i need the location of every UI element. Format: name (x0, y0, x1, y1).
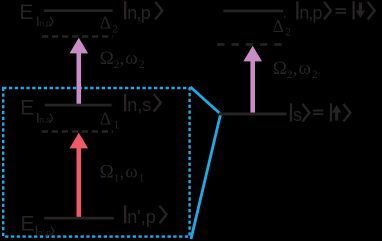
svg-text:1: 1 (139, 173, 145, 185)
svg-text:n,s: n,s (39, 115, 50, 125)
svg-text:ω: ω (125, 48, 138, 69)
svg-text:Ω: Ω (273, 58, 287, 79)
label Omega2,omega2 (left) (100, 48, 145, 71)
blue wedge line lower (box corner to |s> level) (191, 115, 221, 240)
drive arrow Omega2 (purple, right) (243, 46, 262, 115)
detuning dashed line Delta2' (right) (217, 43, 283, 46)
svg-text:,: , (120, 162, 125, 183)
label |s> = |up-arrow> (right) (290, 104, 351, 126)
svg-text:n,s: n,s (127, 95, 151, 115)
svg-text:n,p: n,p (127, 3, 151, 23)
drive arrow Omega2 (purple, left) (70, 38, 89, 106)
svg-text:E: E (21, 212, 35, 235)
svg-text:E: E (19, 1, 33, 24)
blue wedge line upper (box corner to |s> level) (191, 87, 221, 114)
label Delta1 (100, 109, 120, 132)
label Delta2 (100, 13, 119, 36)
label E_{|n',p>} (21, 212, 54, 237)
label Delta2' (273, 12, 292, 39)
label Omega1,omega1 (100, 162, 145, 185)
svg-text:Δ: Δ (100, 13, 111, 33)
level line |n,p> (right top) (223, 10, 283, 13)
svg-text:1: 1 (114, 119, 120, 131)
detuning dashed line Delta2 (left) (42, 35, 113, 38)
blue dashed magnification box (3, 88, 189, 237)
level line |n',p> (left bottom) (44, 217, 114, 220)
ket |n,p> (left top) (124, 1, 162, 23)
svg-text:2: 2 (139, 59, 145, 71)
svg-text:n,p: n,p (299, 3, 322, 23)
svg-text:n,p: n,p (39, 18, 51, 28)
svg-text:n',p: n',p (127, 207, 155, 227)
svg-text:2: 2 (285, 27, 291, 39)
level line |n,p> (left top) (44, 9, 113, 12)
svg-text:ω: ω (299, 58, 312, 79)
svg-text:Ω: Ω (100, 48, 114, 69)
svg-text:′: ′ (284, 12, 287, 27)
svg-text:Ω: Ω (100, 162, 114, 183)
ket |n,s> (left middle) (124, 94, 161, 116)
svg-text:2: 2 (112, 24, 118, 36)
svg-text:s: s (293, 105, 302, 125)
label E_{|n,s>} (20, 96, 53, 124)
level line |s> (right) (219, 113, 287, 116)
svg-text:,: , (293, 58, 298, 79)
spin-up arrow glyph (332, 105, 342, 121)
spin-down arrow glyph (356, 2, 366, 18)
label |n,p> = |down-arrow> (right top) (296, 1, 374, 23)
svg-text:ω: ω (125, 162, 138, 183)
level line |n,s> (left middle) (45, 104, 112, 107)
svg-text:Δ: Δ (100, 109, 111, 129)
ket |n',p> (left bottom) (124, 205, 167, 227)
svg-text:n',p: n',p (38, 228, 51, 238)
detuning dashed line Delta1 (left) (42, 130, 113, 133)
drive arrow Omega1 (pink) (70, 133, 89, 219)
label Omega2,omega2 (right) (273, 58, 318, 81)
svg-text:Δ: Δ (273, 16, 284, 36)
label E_{|n,p>} (19, 1, 53, 28)
svg-text:E: E (20, 96, 34, 119)
svg-text:2: 2 (312, 69, 318, 81)
svg-text:,: , (120, 48, 125, 69)
